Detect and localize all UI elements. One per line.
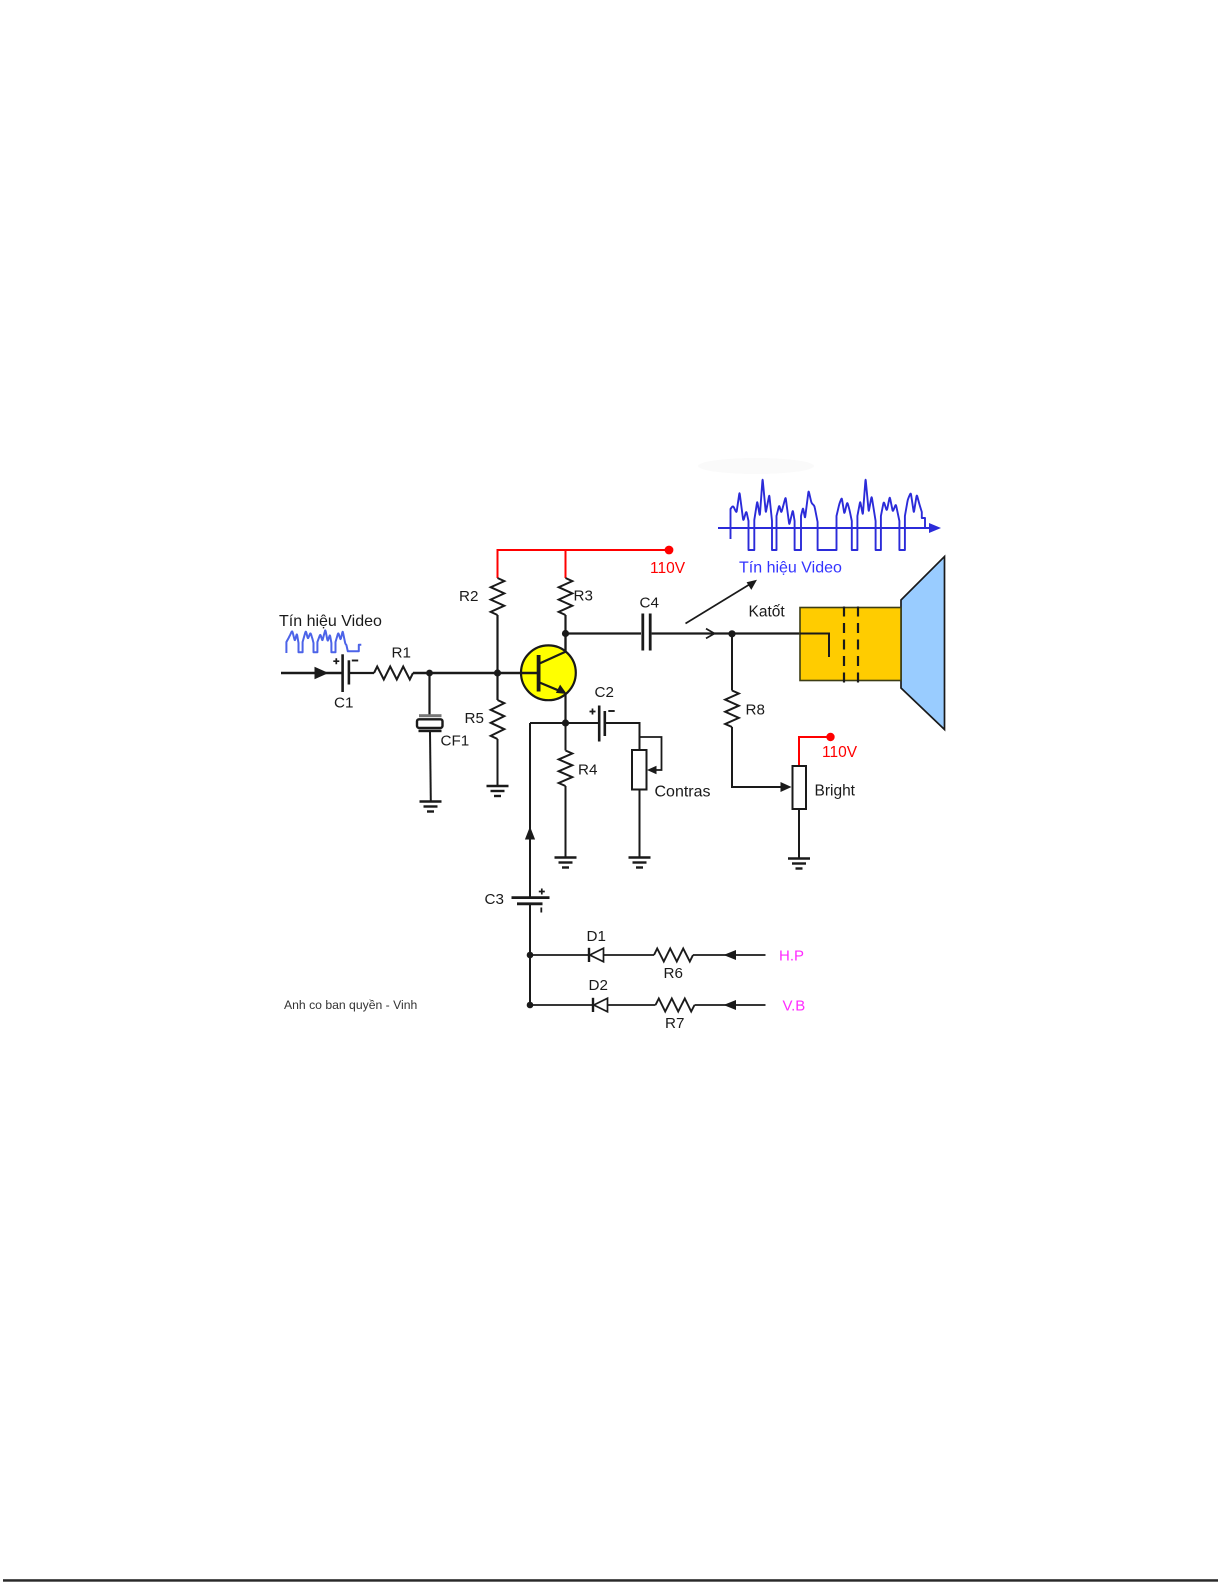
- svg-text:V.B: V.B: [783, 998, 806, 1015]
- emitter node: [562, 719, 569, 726]
- potentiometer Bright body: [793, 766, 807, 809]
- ceramic filter CF1: [417, 714, 443, 732]
- resistor R4: [559, 751, 573, 787]
- 110V red rail: [498, 550, 669, 578]
- CRT screen (blue trapezoid): [901, 557, 945, 730]
- svg-text:C4: C4: [640, 595, 659, 612]
- katot electrode lead: [800, 634, 829, 658]
- svg-text:110V: 110V: [822, 744, 858, 761]
- wire Bright to ground: [798, 809, 800, 858]
- V.B arrowhead: [724, 1000, 737, 1010]
- svg-text:C2: C2: [595, 684, 614, 701]
- output waveform axis (blue): [718, 527, 934, 529]
- CRT grid dashed electrodes: [844, 607, 858, 685]
- 110V rail dot: [665, 546, 674, 555]
- feedback arrowhead (up): [525, 827, 535, 840]
- node D1 junction: [527, 952, 534, 959]
- svg-text:R6: R6: [664, 965, 683, 982]
- wire to D1: [530, 954, 588, 956]
- wire R4 to ground: [565, 786, 567, 857]
- svg-text:R3: R3: [574, 588, 593, 605]
- wiper arrowhead into Contras: [647, 766, 657, 775]
- wire C2 to Contras: [606, 723, 640, 750]
- bottom horizontal rule: [3, 1579, 1218, 1582]
- wire base node to R5: [496, 673, 498, 700]
- katot node: [728, 630, 735, 637]
- ground (R5): [487, 786, 509, 796]
- wire C1 to R1: [350, 672, 374, 674]
- transistor Q1: [521, 645, 576, 700]
- svg-text:C3: C3: [485, 891, 504, 908]
- wire C4 to katot node: [652, 632, 800, 634]
- wire emitter node to left branch: [530, 722, 566, 724]
- svg-text:D2: D2: [589, 977, 608, 994]
- resistor R1: [374, 667, 413, 680]
- wire D1 to R6: [604, 954, 655, 956]
- wire R8 to wiper arrow: [732, 727, 781, 787]
- resistor R7: [656, 999, 695, 1012]
- wire emitter down: [564, 694, 566, 724]
- wire R5 to ground: [497, 739, 499, 786]
- wiper arrowhead into Bright: [781, 782, 792, 792]
- node D2 junction: [527, 1002, 534, 1009]
- diode D1: [589, 948, 604, 962]
- Contras wiper loop: [640, 737, 662, 770]
- wire C3 down to D1/D2 bus: [529, 904, 531, 1005]
- annotation arrow to output waveform: [686, 584, 752, 624]
- ground (Bright): [788, 859, 810, 869]
- output video waveform (blue): [731, 480, 926, 550]
- potentiometer Contras body: [632, 750, 647, 790]
- svg-text:Anh co ban quyền - Vinh: Anh co ban quyền - Vinh: [284, 998, 417, 1012]
- wire R3 to collector node: [564, 615, 566, 652]
- svg-text:110V: 110V: [650, 560, 686, 577]
- wire R1 to base node: [413, 672, 538, 674]
- svg-text:C1: C1: [334, 695, 353, 712]
- wire R7 to V.B: [695, 1004, 766, 1006]
- wire node to CF1: [428, 673, 430, 715]
- svg-text:R5: R5: [465, 710, 484, 727]
- svg-text:Tín hiệu Video: Tín hiệu Video: [739, 560, 842, 577]
- capacitor C1: [333, 654, 358, 692]
- red wire to 110V: [799, 737, 829, 765]
- svg-text:R1: R1: [392, 645, 411, 662]
- signal direction chevron: [706, 629, 715, 639]
- resistor R6: [654, 949, 693, 962]
- svg-text:Bright: Bright: [815, 783, 856, 800]
- svg-text:CF1: CF1: [441, 733, 470, 750]
- wire collector to C4: [566, 632, 642, 634]
- wire collector node to transistor: [564, 634, 566, 654]
- resistor R5: [491, 700, 505, 739]
- 110V node dot: [826, 733, 834, 741]
- diode D2: [593, 998, 608, 1012]
- CRT gun body (yellow): [800, 608, 901, 681]
- wire emitter node to C2: [566, 722, 599, 724]
- svg-text:Katốt: Katốt: [749, 604, 786, 621]
- node (base junction): [494, 669, 501, 676]
- wire D2 to R7: [608, 1004, 656, 1006]
- resistor R3: [559, 578, 573, 615]
- capacitor C3 (electrolytic, battery style): [512, 889, 550, 913]
- ground (CF1): [420, 802, 442, 812]
- svg-text:R4: R4: [578, 762, 597, 779]
- collector node: [562, 630, 569, 637]
- wire R2 to base node: [496, 615, 498, 673]
- input arrowhead: [315, 667, 329, 679]
- axis arrowhead: [929, 523, 941, 533]
- H.P arrowhead: [724, 950, 737, 960]
- resistor R8: [725, 691, 739, 728]
- svg-text:Tín hiệu Video: Tín hiệu Video: [279, 613, 382, 630]
- resistor R2: [491, 578, 505, 615]
- ground (R4): [555, 858, 577, 868]
- input wire: [281, 672, 342, 675]
- wire Contras to ground: [639, 790, 641, 858]
- svg-text:R2: R2: [459, 588, 478, 605]
- svg-text:Contras: Contras: [655, 784, 711, 801]
- node (CF1 junction): [426, 670, 433, 677]
- svg-text:D1: D1: [587, 928, 606, 945]
- wire katot node down to R8: [731, 634, 733, 691]
- svg-text:R8: R8: [746, 702, 765, 719]
- ground (Contras): [629, 858, 651, 868]
- capacitor C4: [643, 614, 650, 651]
- svg-text:H.P: H.P: [779, 948, 804, 965]
- svg-text:R7: R7: [665, 1015, 684, 1032]
- wire to D2: [530, 1004, 592, 1006]
- wire R6 to H.P: [693, 954, 766, 956]
- input video waveform (small, blue): [286, 630, 361, 653]
- wire CF1 to ground: [429, 732, 432, 801]
- wire emitter to R4: [565, 723, 567, 751]
- wire left branch down to C3: [529, 723, 531, 897]
- capacitor C2: [590, 706, 615, 742]
